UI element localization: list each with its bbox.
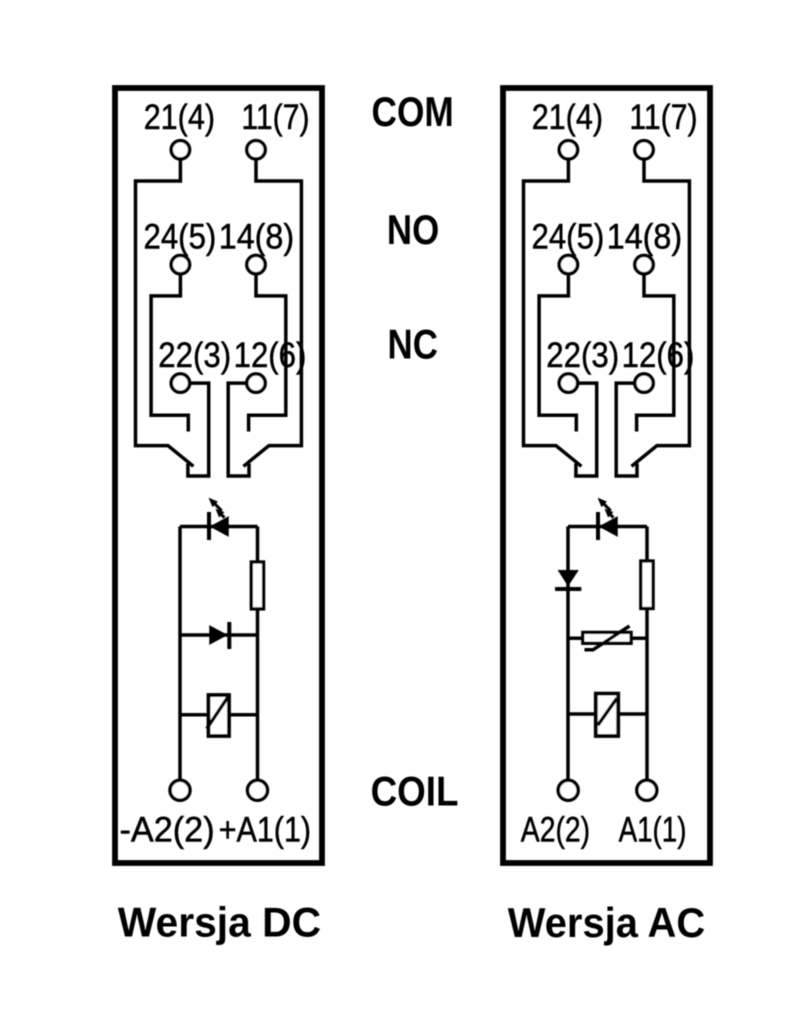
diode D1 (DC box): triangle pointing right (210, 626, 226, 643)
LED light-emission arrow 1 (603, 503, 611, 511)
wire AC left rail to coil terminal A2 (566, 527, 570, 781)
AC version box outline (503, 88, 710, 863)
coil terminal circle A1(1) (248, 780, 268, 800)
LED light-emission arrow 2 (221, 514, 225, 518)
svg-text:21(4): 21(4) (144, 97, 215, 137)
LED indicator: triangle (points left) (600, 517, 617, 535)
wire NC pole2 DC: contact foot up to terminal 12(6) (228, 383, 249, 476)
svg-text:COM: COM (372, 89, 454, 135)
terminal circle 14(8) (AC box) (635, 255, 653, 273)
wire AC coil top rail (568, 525, 647, 529)
LED indicator: cathode bar (207, 512, 211, 540)
wire DC left rail to coil terminal A2 (178, 527, 182, 781)
LED indicator: cathode bar (596, 512, 600, 540)
wire NO pole2 AC: terminal 14(8) to open contact stub (637, 273, 674, 432)
wire NC pole2 AC: contact foot up to terminal 12(6) (616, 383, 637, 476)
terminal circle 14(8) (DC box) (247, 255, 265, 273)
resistor R2 (AC box) (641, 561, 653, 609)
svg-text:22(3): 22(3) (546, 335, 619, 375)
relay coil K2 (AC box): diagonal slash (598, 698, 617, 725)
terminal circle 11(7) (DC box) (247, 141, 265, 159)
wire COM pole2 DC: terminal 11(7) to moving-contact blade (244, 158, 302, 467)
wire COM pole1 AC: terminal 21(4) to moving-contact blade (524, 158, 582, 467)
terminal circle 22(3) (AC box) (559, 374, 577, 392)
terminal circle 21(4) (DC box) (171, 141, 189, 159)
LED light-emission arrow 1 (214, 503, 222, 511)
coil terminal circle A1(1) (637, 780, 657, 800)
varistor RV1 (AC box): rectangle (583, 632, 631, 643)
wire DC middle rung with diode (180, 633, 258, 637)
wire DC coil rung (180, 713, 258, 717)
svg-text:14(8): 14(8) (607, 217, 682, 257)
svg-text:A2(2): A2(2) (521, 810, 590, 850)
svg-text:14(8): 14(8) (219, 217, 294, 257)
coil terminal circle A2(2) (170, 780, 190, 800)
svg-text:Wersja AC: Wersja AC (508, 900, 705, 946)
svg-text:-A2(2): -A2(2) (120, 810, 215, 850)
wire NO pole2 DC: terminal 14(8) to open contact stub (249, 273, 286, 432)
coil terminal circle A2(2) (558, 780, 578, 800)
svg-text:COIL: COIL (371, 768, 459, 814)
DC version box outline (115, 88, 322, 863)
wire NO pole1 AC: terminal 24(5) to open contact stub (539, 273, 576, 432)
terminal circle 11(7) (AC box) (635, 141, 653, 159)
wire NO pole1 DC: terminal 24(5) to open contact stub (151, 273, 188, 432)
wire NC pole1 AC: contact foot up to terminal 22(3) (575, 383, 596, 476)
svg-text:Wersja DC: Wersja DC (118, 900, 321, 946)
wire AC right rail upper segment (645, 527, 649, 563)
terminal circle 24(5) (DC box) (171, 255, 189, 273)
svg-text:24(5): 24(5) (144, 217, 217, 257)
terminal circle 22(3) (DC box) (171, 374, 189, 392)
wire COM pole1 DC: terminal 21(4) to moving-contact blade (136, 158, 194, 467)
diode D2 (AC box): cathode bar (555, 587, 581, 591)
terminal circle 12(6) (AC box) (635, 374, 653, 392)
svg-text:22(3): 22(3) (158, 335, 231, 375)
svg-text:11(7): 11(7) (241, 97, 309, 137)
terminal circle 21(4) (AC box) (559, 141, 577, 159)
terminal circle 24(5) (AC box) (559, 255, 577, 273)
svg-text:+A1(1): +A1(1) (219, 810, 311, 850)
wire NC pole1 DC: contact foot up to terminal 22(3) (187, 383, 208, 476)
wire AC coil rung (568, 712, 647, 716)
svg-text:12(6): 12(6) (622, 335, 695, 375)
relay coil K1 (DC box): diagonal slash (207, 697, 228, 729)
wire AC right rail lower segment (645, 609, 649, 781)
svg-text:A1(1): A1(1) (619, 810, 687, 850)
diode D1 (DC box): cathode bar (227, 622, 231, 649)
svg-text:NC: NC (388, 322, 438, 368)
LED indicator: triangle (points left) (211, 517, 228, 535)
relay coil K2 (AC box): rectangle (596, 694, 618, 736)
relay coil K1 (DC box): rectangle (209, 695, 230, 736)
svg-text:24(5): 24(5) (532, 217, 605, 257)
terminal circle 12(6) (DC box) (247, 374, 265, 392)
diode D2 (AC box): triangle pointing down (559, 571, 577, 585)
varistor RV1 (AC box): diagonal strike line (585, 626, 630, 650)
wire DC right rail lower segment (256, 609, 260, 781)
svg-text:NO: NO (387, 207, 439, 253)
resistor R1 (DC box) (251, 562, 263, 609)
LED light-emission arrow 2 (610, 514, 614, 518)
svg-text:21(4): 21(4) (532, 97, 603, 137)
wire DC right rail upper segment (256, 527, 260, 564)
wire COM pole2 AC: terminal 11(7) to moving-contact blade (632, 158, 690, 467)
wire DC coil top rail (node to LED) (180, 525, 258, 529)
svg-text:11(7): 11(7) (629, 97, 697, 137)
svg-text:12(6): 12(6) (234, 335, 307, 375)
wire AC varistor rung (568, 637, 647, 641)
